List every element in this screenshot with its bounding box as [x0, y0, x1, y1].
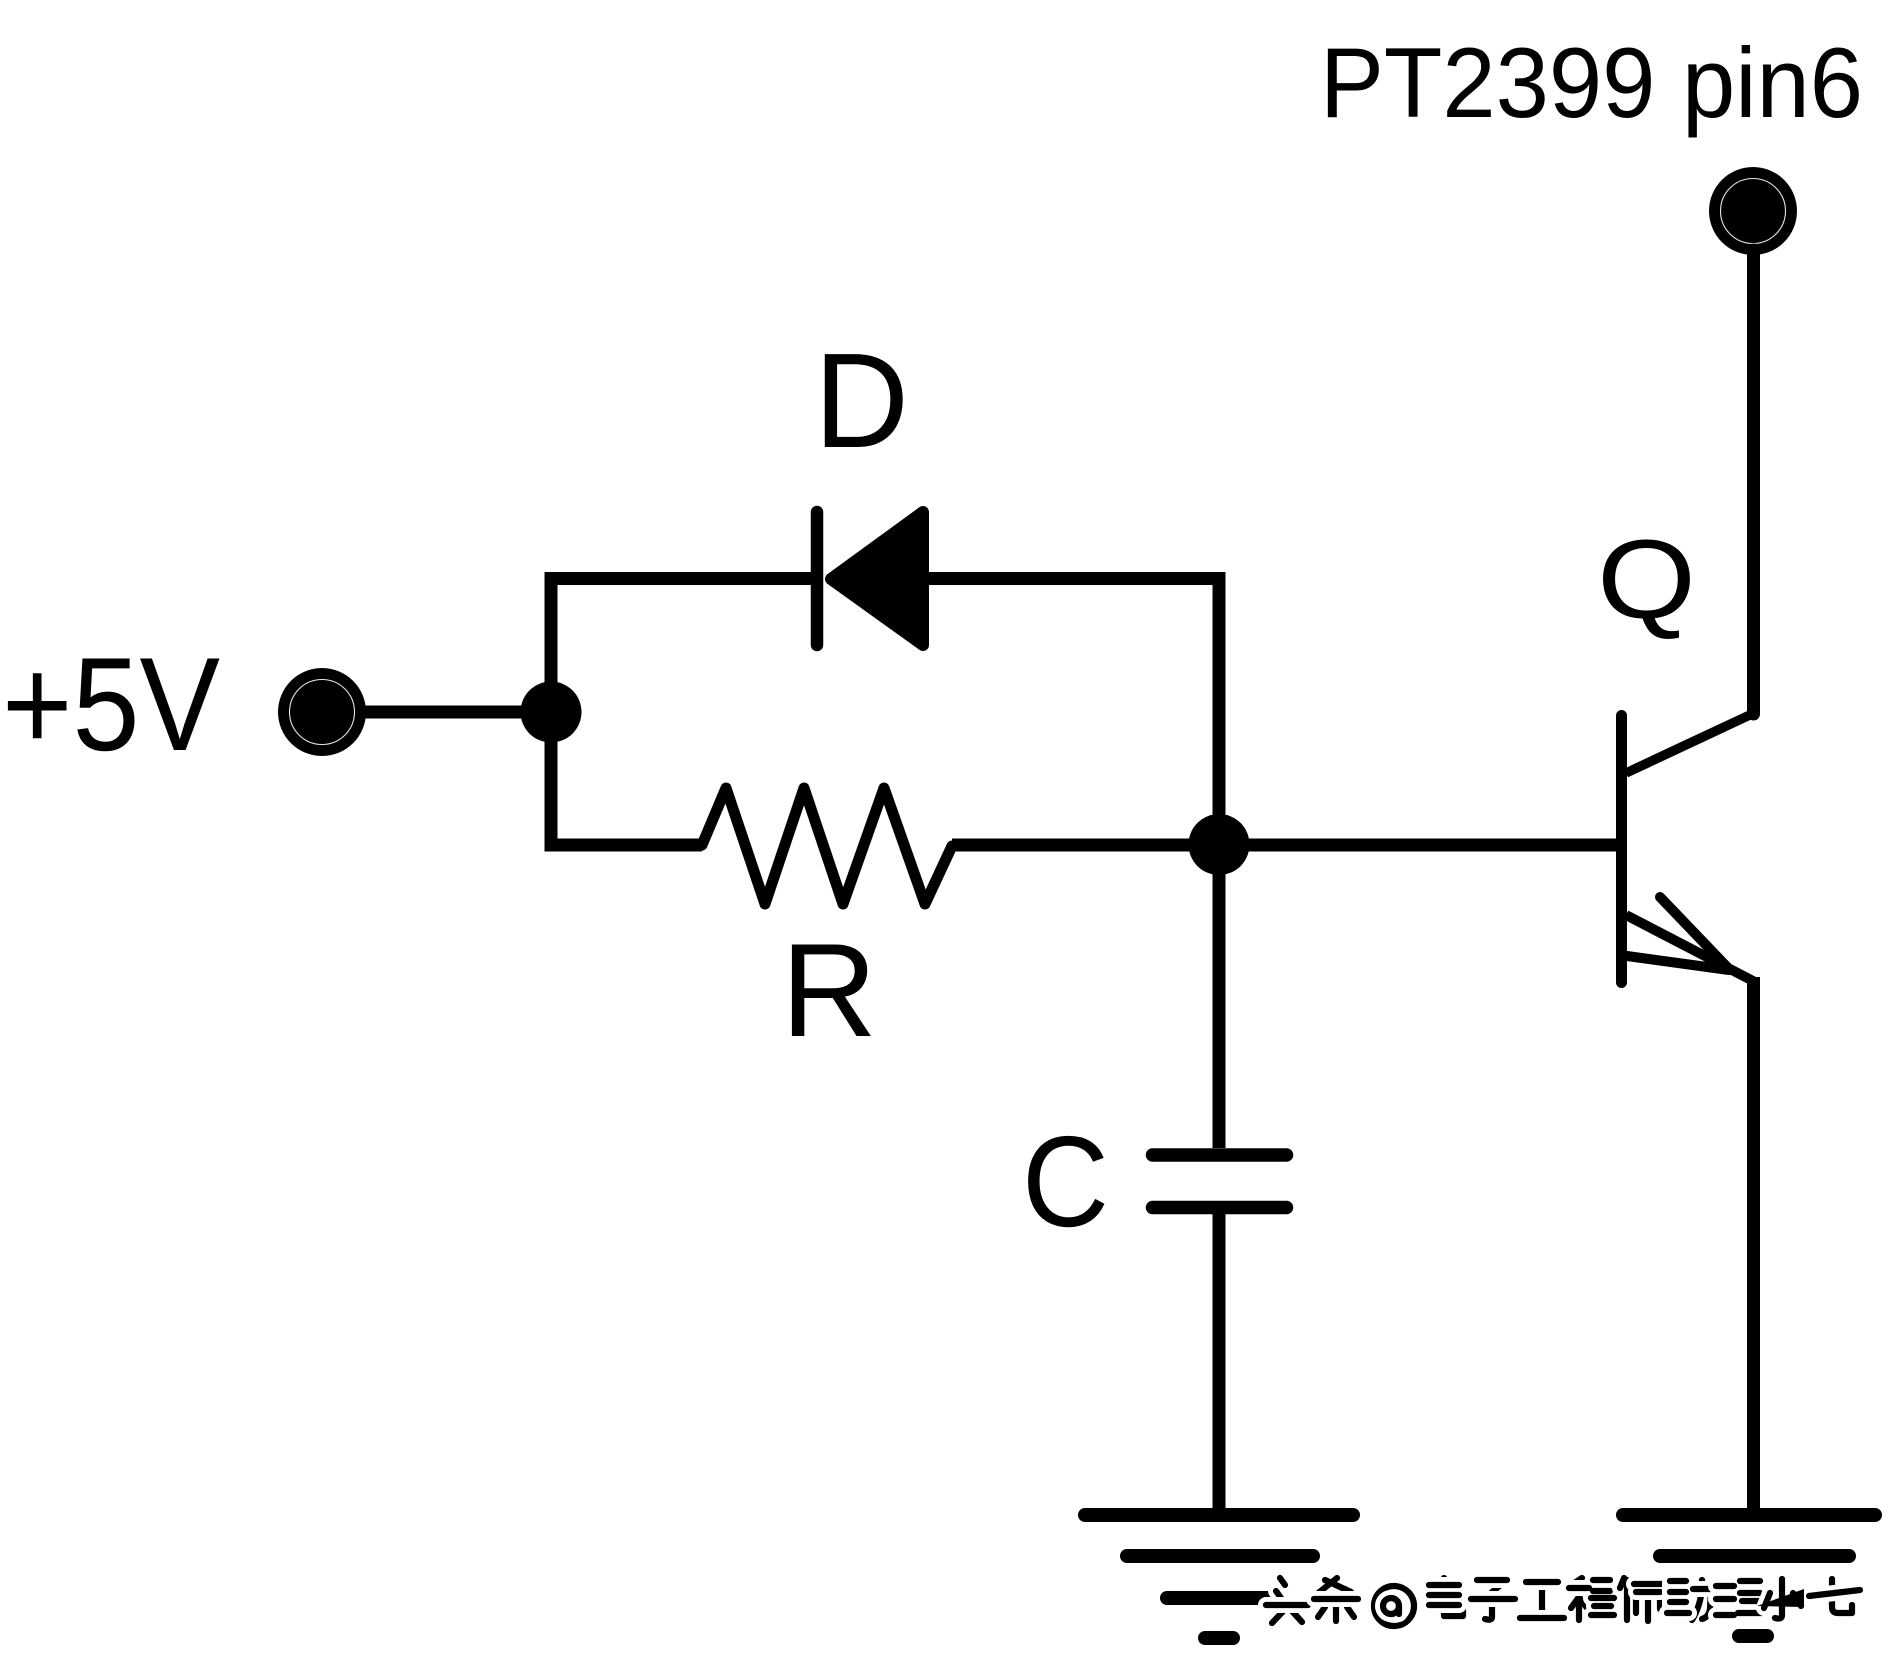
diode D triangle	[831, 512, 923, 645]
transistor Q emitter arrow barb upper	[1660, 897, 1729, 969]
terminal +5V	[278, 668, 366, 756]
transistor Q emitter diagonal	[1626, 915, 1755, 982]
wire diode to right vertical down to capacitor	[929, 579, 1219, 1149]
svg-text:D: D	[814, 325, 909, 476]
capacitor C bottom plate	[1153, 1201, 1287, 1215]
wire capacitor to ground	[1213, 1213, 1226, 1515]
ground (left, under capacitor)	[1085, 1515, 1353, 1638]
svg-text:Q: Q	[1597, 517, 1696, 642]
ground bar fragment showing through watermark halo	[1757, 1589, 1804, 1607]
wire pin6 terminal to collector	[1747, 250, 1760, 714]
wire +5V terminal to junction	[360, 706, 551, 719]
ground (right, under emitter)	[1623, 1515, 1875, 1636]
transistor Q emitter arrow barb lower	[1627, 956, 1729, 970]
svg-text:R: R	[781, 917, 877, 1065]
transistor Q collector diagonal	[1626, 714, 1753, 774]
wire resistor to transistor base	[952, 839, 1621, 852]
transistor Q base bar	[1616, 716, 1627, 983]
diode D cathode bar	[811, 512, 824, 645]
junction node at capacitor	[1189, 814, 1250, 875]
wire emitter to ground	[1747, 977, 1760, 1515]
svg-text:C: C	[1022, 1110, 1109, 1254]
wire base	[1219, 839, 1621, 852]
svg-text:PT2399 pin6: PT2399 pin6	[1320, 27, 1863, 138]
capacitor C top plate	[1153, 1148, 1287, 1162]
svg-text:+5V: +5V	[2, 631, 220, 779]
wire left branch (diode row, left vertical, resistor row start)	[551, 579, 811, 846]
terminal PT2399 pin6	[1709, 167, 1797, 255]
resistor R zigzag	[702, 788, 952, 904]
junction node at +5V	[521, 682, 582, 743]
